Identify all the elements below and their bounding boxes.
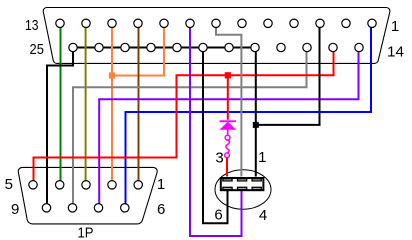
DB9 top row pin circles [29,181,143,189]
connector J2 DB9 outline [18,167,157,224]
svg-text:6: 6 [157,201,165,218]
junction orange [109,72,115,78]
diode D1 magenta triangle pointing up [219,122,236,130]
wire purple DB25 pin14 to DB9 pin7 [99,52,358,205]
svg-text:13: 13 [25,17,39,34]
wire magenta diode to coil [227,129,229,135]
wire gray DB25 pin16 to DB9 pin8 [73,52,307,205]
svg-text:4: 4 [259,207,267,224]
connector J3 pin slot bottom left [223,187,232,189]
svg-text:9: 9 [11,201,19,218]
wire red DB25 pin15 to DB9 pin5 [34,52,334,182]
wire black DB25 pin20 to connector pin6 [203,52,228,224]
wire black DB25 pin3 branch [256,28,320,125]
wire black DB25 pin25 to DB9 pin9 [47,52,73,205]
svg-text:14: 14 [387,44,404,61]
connector J3 pin slot bottom right [252,187,261,189]
junction black [253,122,259,128]
wire red coil to connector pin3 [226,158,228,177]
coil terminal lower circle [225,153,230,158]
wire brown DB25 pin10 to DB9 pin1 [138,27,140,181]
connector J3 pin slot bottom middle [238,187,247,189]
connector J3 pin slot top middle [238,179,247,181]
wire red branch to diode [227,75,229,120]
svg-text:1: 1 [258,149,266,166]
svg-text:1P: 1P [78,224,94,240]
svg-text:3: 3 [215,149,223,166]
svg-text:1: 1 [391,18,399,35]
svg-text:6: 6 [214,207,222,224]
coil terminal upper circle [225,135,230,140]
DB25 bottom row pin circles [69,43,363,51]
wire olive DB25 pin12 to DB9 pin3 [85,27,87,181]
svg-text:5: 5 [5,176,13,193]
wire purple DB25 pin8 to connector pin4 [190,27,242,236]
DB25 top row pin circles [56,19,376,27]
wire green DB25 pin13 to DB9 pin4 [60,27,62,181]
connector J1 DB25 outline [43,7,390,63]
DB9 bottom row pin circles [42,204,129,212]
wire orange branch to DB25 pin9 [112,27,164,75]
connector J3 pin slot top left [223,179,232,181]
black bus wire DB25 pins 25-18 [73,47,256,49]
connector J3 round controller port outline [215,170,271,209]
svg-text:25: 25 [30,41,44,58]
diode D1 magenta cathode bar [220,120,236,122]
svg-text:1: 1 [157,176,165,193]
coil L1 squiggle [226,140,230,153]
junction red [225,72,231,78]
wire blue DB25 pin1 to DB9 pin6 [126,27,372,204]
wire orange DB25 pin11 to DB9 pin2 [111,27,113,181]
connector J3 pin slot top right [252,179,261,181]
wire black DB25 pin18 to connector pin1 [255,52,257,177]
wire gray DB25 pin7 to connector pin2 [216,27,241,176]
connector J3 body rectangle [221,178,264,190]
